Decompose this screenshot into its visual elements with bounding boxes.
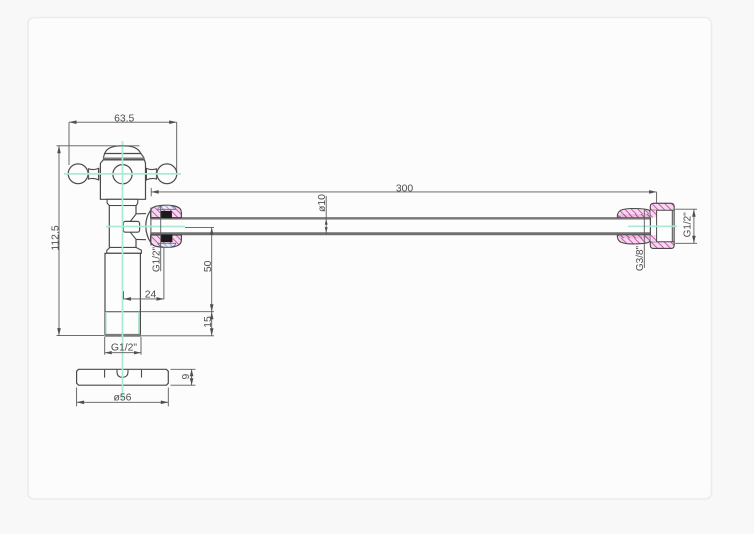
300 arrows bbox=[151, 190, 159, 194]
dim o56 bbox=[76, 388, 78, 407]
horizontal centerline handle bbox=[64, 173, 181, 175]
dim 50 + 15 vertical bbox=[185, 226, 214, 228]
dim 24 bbox=[124, 298, 165, 300]
svg-text:112.5: 112.5 bbox=[51, 225, 62, 250]
svg-text:G1/2": G1/2" bbox=[111, 343, 138, 354]
svg-text:G3/8": G3/8" bbox=[635, 245, 646, 271]
svg-text:G1/2": G1/2" bbox=[683, 212, 694, 238]
dim 300 bbox=[151, 191, 656, 193]
G1/2 right arrows bbox=[692, 209, 696, 217]
outlet box bbox=[123, 221, 139, 232]
svg-text:9: 9 bbox=[181, 373, 192, 379]
112.5 arrows bbox=[57, 146, 61, 154]
main cylinder bbox=[110, 206, 135, 247]
15 arrows bbox=[210, 312, 214, 320]
vertical centerline valve bbox=[122, 141, 124, 399]
handle ball left bbox=[68, 164, 88, 184]
body top face bbox=[103, 158, 145, 161]
bottom cap blue hatch bbox=[158, 243, 176, 247]
svg-text:G1/2": G1/2" bbox=[152, 246, 163, 272]
dim 9 bbox=[171, 368, 196, 370]
G1/2 bottom arrows bbox=[105, 351, 112, 354]
tube interior bbox=[151, 220, 656, 232]
dim o10 bbox=[325, 196, 327, 235]
handle ball right bbox=[157, 164, 177, 184]
dim 112.5 bbox=[58, 146, 60, 336]
63.5 arrows bbox=[69, 120, 77, 124]
G3/8 nut top lobe bbox=[617, 208, 650, 217]
handle neck left bbox=[88, 168, 99, 180]
outlet chamfers bbox=[130, 214, 136, 221]
handle neck right bbox=[146, 168, 157, 180]
disc center notch bbox=[117, 370, 128, 378]
label G3/8 leader bbox=[643, 210, 645, 269]
label G1/2 left leader bbox=[160, 206, 162, 271]
horizontal centerline tube right bbox=[628, 225, 677, 227]
dome bbox=[103, 146, 144, 159]
thread start line bbox=[105, 311, 140, 313]
lower flange bbox=[107, 247, 142, 253]
50 arrows bbox=[210, 227, 214, 235]
thread minor lines (green) bbox=[105, 312, 107, 334]
arrowheads bbox=[57, 120, 696, 404]
G1/2 left wall hatch bbox=[650, 210, 656, 217]
svg-text:300: 300 bbox=[396, 183, 414, 194]
o10 arrows bbox=[325, 219, 328, 224]
top cap blue hatch bbox=[158, 205, 176, 209]
svg-text:63.5: 63.5 bbox=[114, 114, 134, 125]
svg-text:ø56: ø56 bbox=[114, 393, 132, 404]
dim G1/2 bottom bbox=[104, 337, 106, 355]
horizontal centerline tube left bbox=[106, 226, 185, 228]
G1/2 top hatch band bbox=[650, 203, 674, 210]
o56 arrows bbox=[77, 401, 85, 405]
svg-text:24: 24 bbox=[145, 289, 157, 300]
upper flange below body bbox=[107, 199, 138, 205]
svg-text:50: 50 bbox=[203, 260, 214, 272]
nut top half body bbox=[151, 205, 182, 217]
G1/2 inner lines bbox=[656, 210, 658, 242]
G1/2 bottom hatch band bbox=[650, 242, 674, 249]
vertical pipe bbox=[105, 253, 140, 335]
pipe bottom face bbox=[105, 334, 141, 337]
nut left profile arc bbox=[146, 211, 151, 243]
dim G1/2 right bbox=[675, 208, 697, 210]
top seal bbox=[160, 211, 172, 218]
inner tube end line bbox=[150, 208, 152, 246]
tube bottom wall bbox=[151, 232, 656, 235]
nut bottom half body bbox=[151, 235, 182, 247]
G3/8 nut bottom lobe bbox=[617, 235, 650, 244]
dim 63.5 bbox=[69, 121, 177, 123]
center boss circle bbox=[113, 165, 132, 184]
G1/2 fitting body bbox=[650, 203, 674, 248]
disc ticks bbox=[104, 370, 106, 378]
9 arrows bbox=[190, 369, 194, 376]
tube top wall bbox=[151, 217, 656, 220]
bottom seal bbox=[161, 235, 173, 243]
svg-text:ø10: ø10 bbox=[317, 194, 328, 212]
valve body bbox=[100, 160, 145, 199]
24 arrows bbox=[124, 297, 132, 301]
svg-text:15: 15 bbox=[203, 316, 214, 328]
side outlet thread lines bbox=[136, 213, 146, 215]
